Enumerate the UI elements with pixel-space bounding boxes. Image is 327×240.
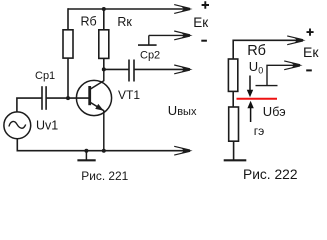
svg-text:Rб: Rб <box>247 43 266 59</box>
node: collector junction dot <box>102 67 106 71</box>
source Uv1 sine wave <box>9 121 26 128</box>
transistor VT1 circle <box>76 80 111 115</box>
svg-text:Uвых: Uвых <box>168 103 197 118</box>
svg-text:Ек: Ек <box>193 15 208 30</box>
terminal arrow +Ek <box>174 5 192 14</box>
label - (left) <box>201 40 207 42</box>
node: junction dot top of Rk <box>102 7 106 11</box>
wire: re bottom lead <box>233 141 235 160</box>
transistor VT1 base bar <box>88 86 91 105</box>
resistor Rk <box>99 30 109 59</box>
annotation arrow Ube up <box>247 101 253 122</box>
svg-text:Uv1: Uv1 <box>36 119 58 133</box>
svg-text:Ек: Ек <box>303 44 319 60</box>
wire: minus step bar <box>138 44 157 46</box>
wire: source bottom lead <box>16 139 18 151</box>
terminal arrow - (right) <box>284 61 302 70</box>
label + (left) <box>202 1 209 8</box>
capacitor Cp2 <box>129 60 134 82</box>
terminal arrow +Ek (right) <box>287 36 305 45</box>
transistor VT1 emitter diagonal with arrow <box>90 102 104 111</box>
svg-text:Rк: Rк <box>117 15 132 29</box>
wire: Rk bottom lead to collector node <box>103 58 105 69</box>
resistor re <box>229 107 239 141</box>
svg-text:U0: U0 <box>249 59 263 76</box>
svg-text:Cp1: Cp1 <box>35 70 55 82</box>
svg-text:Рис. 222: Рис. 222 <box>243 167 298 182</box>
ground (left) <box>77 151 95 161</box>
svg-text:гэ: гэ <box>254 124 264 138</box>
annotation arrow U0 down <box>247 76 253 98</box>
wire: minus rail to arrow <box>149 34 185 36</box>
wire: base wire from Cp1 <box>46 97 90 99</box>
wire: Cp2 to output arrow <box>134 68 185 70</box>
svg-text:Uбэ: Uбэ <box>263 104 286 119</box>
wire: collector node to Cp2 <box>104 68 129 70</box>
capacitor Cp1 <box>42 86 46 110</box>
wire: Rb bottom lead <box>67 58 69 98</box>
red level line <box>237 98 278 100</box>
terminal arrow -Ek <box>174 31 192 40</box>
resistor Rb (right) <box>228 59 237 91</box>
wire: Rk top lead <box>103 9 105 30</box>
wire: between Rb and re <box>232 91 234 107</box>
wire: left circuit top rail y=9 <box>68 8 185 10</box>
wire: Rb top lead <box>67 8 69 30</box>
wire: source top to Cp1 <box>17 98 42 112</box>
wire: emitter lead down <box>103 111 105 151</box>
wire: minus step (right) <box>256 65 295 85</box>
svg-text:VT1: VT1 <box>118 88 140 102</box>
ground (right) <box>224 159 247 161</box>
source Uv1 circle <box>4 112 31 139</box>
label + (right) <box>307 29 314 36</box>
terminal arrow bottom <box>174 146 192 155</box>
resistor Rb <box>63 30 73 58</box>
svg-text:Cp2: Cp2 <box>140 49 160 61</box>
node: base junction dot (Rb joins) <box>66 96 70 100</box>
svg-text:Rб: Rб <box>81 15 97 29</box>
node: ground tap dot <box>84 149 88 153</box>
wire: collector lead <box>103 69 105 81</box>
wire: bottom rail <box>17 150 186 152</box>
wire: minus step vertical <box>148 35 150 45</box>
terminal arrow output <box>174 65 192 74</box>
svg-text:Рис. 221: Рис. 221 <box>81 169 128 183</box>
node: emitter junction dot <box>102 149 106 153</box>
label - (right) <box>306 69 312 71</box>
wire: right circuit top rail <box>233 40 297 59</box>
transistor VT1 collector diagonal <box>90 81 104 90</box>
